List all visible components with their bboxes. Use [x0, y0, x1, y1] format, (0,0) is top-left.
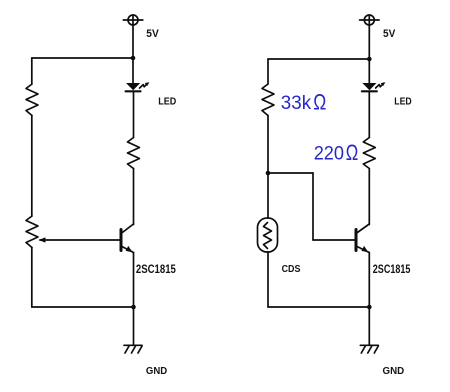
- svg-text:GND: GND: [383, 366, 405, 377]
- svg-text:2SC1815: 2SC1815: [136, 264, 176, 276]
- svg-text:5V: 5V: [146, 28, 159, 40]
- svg-text:LED: LED: [158, 95, 176, 107]
- svg-text:LED: LED: [394, 95, 412, 107]
- svg-text:Ω: Ω: [313, 89, 326, 114]
- svg-text:5V: 5V: [383, 28, 396, 40]
- svg-text:33k: 33k: [281, 93, 312, 114]
- svg-text:GND: GND: [146, 366, 167, 377]
- svg-text:Ω: Ω: [346, 140, 359, 165]
- svg-text:2SC1815: 2SC1815: [373, 264, 411, 276]
- svg-text:220: 220: [314, 144, 344, 165]
- svg-text:CDS: CDS: [282, 264, 301, 275]
